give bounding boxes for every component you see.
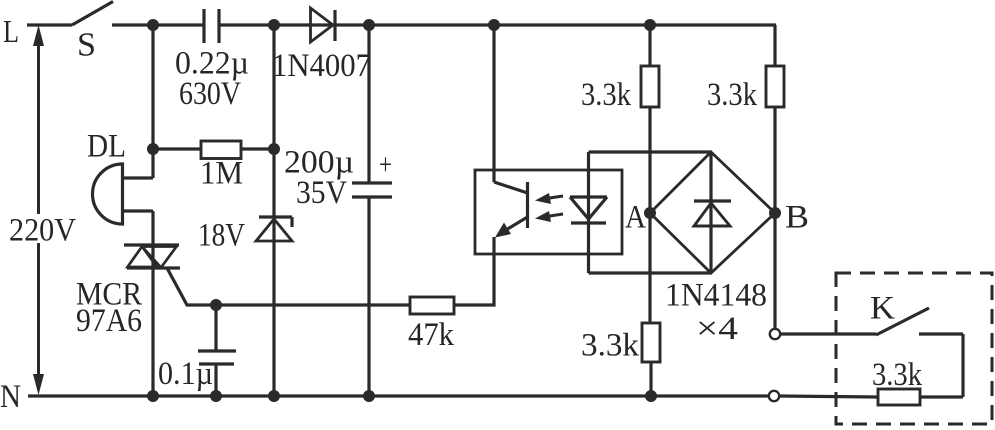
capacitor 0.1µ <box>198 305 236 396</box>
diode 1N4007 <box>311 8 336 42</box>
wire: node A down <box>648 213 651 323</box>
label 630V <box>179 76 241 112</box>
wire: lamp to triac <box>151 211 154 246</box>
label 47k <box>408 317 454 353</box>
LED in optocoupler <box>570 197 607 223</box>
terminal circle upper <box>770 329 780 339</box>
junction: top rail x494 <box>488 19 500 31</box>
wire: 47k to opto emitter <box>454 237 494 305</box>
svg-text:1M: 1M <box>200 156 243 192</box>
svg-text:1N4148: 1N4148 <box>665 278 767 314</box>
wire: top rail middle segment <box>112 23 204 26</box>
label 0.1µ <box>158 356 213 392</box>
svg-text:220V: 220V <box>9 213 76 249</box>
resistor 3.3k top-right <box>766 66 784 107</box>
wire: 1M left lead <box>153 147 201 150</box>
svg-text:N: N <box>0 379 21 415</box>
node A <box>625 200 656 236</box>
svg-text:B: B <box>785 200 809 236</box>
junction: N x369 <box>363 390 375 402</box>
svg-text:A: A <box>625 200 646 236</box>
label 3.3k top-right <box>707 77 757 113</box>
capacitor 200µ <box>352 25 392 396</box>
svg-text:97A6: 97A6 <box>76 303 142 339</box>
label 1M <box>200 156 243 192</box>
bridge inner diode <box>694 152 731 273</box>
svg-text:47k: 47k <box>408 317 454 353</box>
junction: N x274 <box>268 390 280 402</box>
svg-text:3.3k: 3.3k <box>707 77 757 113</box>
triac MCR97A6 <box>124 245 180 268</box>
wire: L rail left segment <box>27 23 72 26</box>
svg-text:3.3k: 3.3k <box>872 357 922 393</box>
label DL <box>87 129 126 165</box>
wire: rail down to zener node <box>272 25 275 149</box>
wire: 3.3k bottom to N <box>649 362 652 396</box>
svg-text:0.1µ: 0.1µ <box>158 356 213 392</box>
junction: N x651 <box>645 390 657 402</box>
label 0.22µ <box>175 46 249 82</box>
junction: zener top node <box>268 143 280 155</box>
label L <box>3 13 19 49</box>
wire: terminal to switch K <box>780 332 876 335</box>
switch S <box>72 2 113 26</box>
wire: 3.3k to N terminal <box>779 396 878 397</box>
resistor 3.3k bottom <box>642 323 660 362</box>
wire: rail down to DL/1M node <box>151 25 154 178</box>
wire: opto collector to rail <box>492 25 495 182</box>
wire: 3.3k to node A <box>648 107 651 213</box>
label 97A6 <box>76 303 142 339</box>
label 200µ <box>284 145 354 181</box>
wire: node B down to terminal <box>773 213 776 329</box>
terminal circle lower <box>769 391 779 401</box>
wire: top rail right segment <box>219 23 776 26</box>
label 3.3k top-left <box>581 77 631 113</box>
label 220V <box>9 213 76 249</box>
label K <box>870 291 895 327</box>
junction: top rail x274 <box>268 19 280 31</box>
label 3.3k bottom <box>581 328 640 364</box>
bridge input frame <box>589 152 712 273</box>
resistor 3.3k top-left <box>641 66 659 107</box>
svg-text:S: S <box>77 27 96 64</box>
label ×4 <box>696 311 738 347</box>
junction: top rail x369 <box>363 19 375 31</box>
junction: DL/1M node <box>147 143 159 155</box>
wire: 1M right lead <box>241 147 274 150</box>
wire: gate node to 47k <box>216 303 410 306</box>
dashed enclosure K <box>836 273 992 424</box>
label 18V <box>198 218 245 254</box>
junction: gate node <box>210 299 222 311</box>
bridge diamond 1N4148 x4 <box>650 152 775 273</box>
N line <box>28 394 769 397</box>
svg-text:K: K <box>870 291 895 327</box>
node B <box>769 200 809 236</box>
label + polarity <box>379 148 392 181</box>
svg-text:1N4007: 1N4007 <box>272 48 371 84</box>
lamp DL <box>93 164 153 224</box>
junction: N x153 <box>147 390 159 402</box>
label N <box>0 379 21 415</box>
switch K <box>876 308 963 335</box>
label 1N4007 <box>272 48 371 84</box>
label 3.3k K box <box>872 357 922 393</box>
svg-text:DL: DL <box>87 129 126 165</box>
zener 18V <box>256 149 292 396</box>
wire: K to 3.3k <box>920 395 963 398</box>
resistor 3.3k in K box <box>878 389 920 405</box>
svg-text:35V: 35V <box>296 175 347 211</box>
label S <box>77 27 96 64</box>
resistor 47k <box>410 297 454 314</box>
svg-text:630V: 630V <box>179 76 241 112</box>
svg-text:3.3k: 3.3k <box>581 77 631 113</box>
label 1N4148 <box>665 278 767 314</box>
svg-text:3.3k: 3.3k <box>581 328 640 364</box>
wire: rail corner to 3.3k top-right <box>773 25 776 66</box>
wire: triac MT2 to N <box>151 245 154 396</box>
label 35V <box>296 175 347 211</box>
wire: 3.3k to node B <box>773 107 776 213</box>
optocoupler box <box>475 170 622 254</box>
220V arrow <box>33 25 44 395</box>
svg-text:+: + <box>379 148 392 181</box>
wire: rail to 3.3k top-left <box>648 25 651 66</box>
svg-text:L: L <box>3 13 19 49</box>
resistor 1M <box>201 141 241 159</box>
wire: K down <box>961 334 964 397</box>
svg-text:18V: 18V <box>198 218 245 254</box>
capacitor 0.22µ <box>204 9 219 43</box>
junction: top rail x153 <box>147 19 159 31</box>
svg-text:×4: ×4 <box>696 311 738 347</box>
junction: top rail x650 <box>644 19 656 31</box>
light arrows <box>535 193 563 222</box>
junction: N x216 <box>210 390 222 402</box>
phototransistor <box>494 182 528 238</box>
wire: triac gate <box>167 268 216 305</box>
label MCR <box>76 277 142 313</box>
